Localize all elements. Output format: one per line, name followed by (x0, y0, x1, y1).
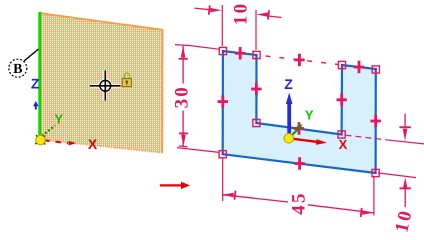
handle center dots (222, 50, 224, 52)
dim 30 top tick (175, 44, 188, 47)
dim 45 left arrow (222, 193, 234, 198)
left origin point (36, 135, 46, 145)
reference plane (halftone orange) (40, 13, 163, 153)
midpoint cross C5 (354, 61, 364, 73)
svg-text:45: 45 (289, 191, 310, 214)
big red arrow (160, 184, 181, 186)
vertex handle H1 (219, 47, 226, 54)
svg-text:X: X (339, 137, 348, 152)
svg-text:X: X (88, 136, 98, 152)
plane orange border (41, 13, 163, 153)
sketch edges (223, 51, 376, 173)
svg-text:Y: Y (305, 107, 314, 122)
left Z axis stub arrow (35, 105, 37, 110)
dim r10 upper arrow (403, 129, 408, 141)
midpoint cross C2 (251, 83, 261, 96)
vertex handle H4 (338, 131, 345, 138)
plane green edge (38, 12, 41, 136)
svg-text:Y: Y (54, 112, 63, 127)
dim 30 ext top (188, 45, 219, 49)
dim 45 right arrow (362, 210, 374, 215)
midpoint cross C6 (371, 115, 381, 128)
lock icon (122, 73, 131, 86)
dim 30 text (172, 85, 193, 108)
dim r10 lower arrow (403, 177, 408, 189)
dim r10 text (391, 207, 416, 234)
midpoint cross C8 (218, 95, 228, 108)
midpoint cross C9 on construction line (294, 54, 304, 66)
dim 45 ext right (373, 177, 375, 216)
dim 30 line upper (182, 46, 184, 84)
svg-text:Z: Z (284, 76, 293, 92)
midpoint cross C1 (235, 47, 245, 60)
vertex handle H2 (253, 51, 260, 58)
dim top10 text (230, 2, 251, 25)
dim 30 line lower (182, 111, 184, 147)
balloon B circle (9, 59, 27, 77)
crosshair cursor (90, 71, 121, 101)
sketch X axis (293, 139, 318, 142)
vertex handle H5 (338, 61, 345, 68)
left X axis dashed (44, 140, 68, 143)
sketch Z axis (287, 102, 291, 136)
vertex handle H7 (372, 169, 379, 176)
midpoint cross C4 (337, 94, 347, 107)
dim r10 ext A solid (386, 140, 424, 144)
midpoint cross C3 (294, 122, 304, 135)
dim r10 upper tail (404, 114, 406, 128)
dim r10 upper crossbar (399, 126, 410, 128)
midpoint cross C7 (294, 157, 304, 170)
dim 45 ext left (222, 158, 224, 201)
dim 30 bottom arrow (181, 135, 186, 147)
sketch fill (U channel) (223, 51, 376, 173)
construction dashed line (262, 56, 340, 65)
dim r10 lower tail (404, 189, 406, 207)
sketch Y axis (292, 130, 298, 136)
dim r10 ext B (378, 173, 416, 178)
sketch origin point (284, 134, 294, 144)
balloon B leader (24, 49, 39, 61)
svg-text:10: 10 (230, 2, 251, 25)
dim r10 ext A dashed (346, 135, 387, 140)
dim top10 ext right (255, 10, 257, 50)
vertex handle H8 (219, 151, 226, 158)
dim top10 right arrow (256, 13, 268, 17)
dim 45 line right part (308, 205, 374, 213)
dim r10 lower crossbar (400, 187, 411, 189)
dim 45 line left part (222, 195, 288, 202)
dim 30 bottom tick (179, 146, 188, 147)
svg-text:B: B (13, 62, 22, 77)
dim 30 ext bottom (177, 148, 219, 153)
svg-text:Z: Z (31, 76, 40, 92)
left Y axis dotted (42, 126, 55, 137)
dim top10 ext left (221, 5, 223, 46)
vertex handle H3 (253, 119, 260, 126)
svg-text:30: 30 (172, 85, 193, 108)
dim 45 text (289, 191, 310, 214)
vertex handle H6 (372, 66, 379, 73)
dim 30 top arrow (181, 46, 186, 58)
dim top10 left arrow (195, 8, 210, 10)
